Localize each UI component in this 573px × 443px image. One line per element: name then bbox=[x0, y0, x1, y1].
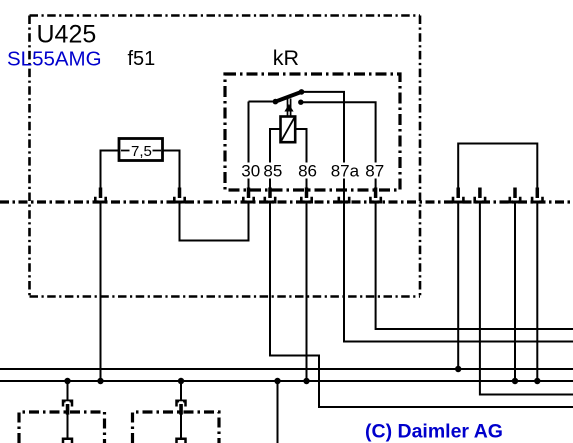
fuse f51 bbox=[119, 139, 163, 161]
connector at rail x537 bbox=[531, 188, 544, 204]
wire pin 86 coil lead down to ground bus bbox=[295, 129, 306, 381]
wire right connector 2 down and out right bbox=[480, 202, 573, 395]
connector at rail x100 bbox=[94, 188, 107, 204]
component box U425 bbox=[30, 16, 421, 297]
value label 7,5 bbox=[130, 142, 153, 160]
relay coil bbox=[281, 117, 296, 143]
wire 30 to arm pivot bbox=[249, 101, 276, 103]
junction dot x277 on ground bus bbox=[274, 378, 280, 384]
bottom terminal 1 bbox=[62, 438, 74, 443]
wire 87a from arm tip down and out right bbox=[302, 92, 573, 342]
connector at rail x179 bbox=[173, 188, 186, 204]
svg-text:30: 30 bbox=[241, 162, 260, 181]
connector at rail pin 85 bbox=[264, 188, 277, 204]
junction dot x537 on ground bus bbox=[534, 378, 540, 384]
component box bottom 2 bbox=[133, 412, 220, 443]
junction dot x458 on upper bus bbox=[455, 366, 461, 372]
svg-text:U425: U425 bbox=[37, 21, 97, 49]
junction dot x515 on ground bus bbox=[512, 378, 518, 384]
junction dot drop 1 on ground bus bbox=[64, 378, 70, 384]
wire 87 from contact down and out right bbox=[301, 102, 573, 329]
junction dot pin 86 on ground bus bbox=[303, 378, 309, 384]
pin label 87a bbox=[331, 162, 360, 181]
pin label 86 bbox=[297, 162, 319, 181]
svg-text:SL55AMG: SL55AMG bbox=[7, 48, 102, 71]
svg-text:85: 85 bbox=[263, 162, 282, 181]
connector at rail x458 bbox=[452, 188, 465, 204]
upper bus wire bbox=[0, 368, 573, 370]
bridge wire between right connectors bbox=[458, 144, 537, 191]
relay switch arm 30-87a bbox=[273, 89, 305, 104]
wire right connector 3 down to ground bus bbox=[514, 202, 516, 381]
svg-text:7,5: 7,5 bbox=[131, 143, 152, 160]
bottom terminal 2 bbox=[175, 438, 187, 443]
connector at rail pin 86 bbox=[300, 188, 313, 204]
contact dot 87 bbox=[298, 100, 303, 105]
junction dot fuse left on ground bus bbox=[97, 378, 103, 384]
connector at rail pin 30 bbox=[242, 188, 255, 204]
connector at rail pin 87a bbox=[338, 197, 351, 204]
svg-text:87a: 87a bbox=[331, 162, 360, 181]
svg-text:(C) Daimler AG: (C) Daimler AG bbox=[365, 421, 503, 443]
connector at rail pin 87 bbox=[369, 188, 382, 204]
wire right connector 1 down to upper bus bbox=[457, 202, 459, 369]
connector at rail x515 bbox=[509, 188, 522, 204]
wire drop to bottom component 1 bbox=[67, 381, 69, 438]
wire drop at x277 to bottom edge bbox=[277, 381, 279, 443]
armature actuation lines with arrow bbox=[284, 99, 293, 117]
wire fuse left lead to ground bus bbox=[101, 151, 120, 382]
pin label 87 bbox=[365, 162, 387, 181]
pin label 30 bbox=[239, 162, 261, 181]
main connector rail bbox=[0, 200, 573, 203]
component box bottom 1 bbox=[19, 412, 105, 443]
wire pin 30 vertical bbox=[248, 102, 250, 241]
wire pin 85 coil lead down, jog right, out right bbox=[270, 129, 573, 407]
wire fuse right lead down and over to pin 30 bbox=[163, 151, 249, 241]
svg-text:f51: f51 bbox=[128, 48, 156, 70]
wire drop to bottom component 2 bbox=[180, 381, 182, 438]
connector at drop 2 bbox=[175, 400, 187, 415]
svg-text:87: 87 bbox=[365, 162, 384, 181]
relay box kR bbox=[225, 74, 400, 190]
pin label 85 bbox=[262, 162, 284, 181]
svg-text:kR: kR bbox=[273, 46, 299, 70]
wire right connector 4 down to ground bus bbox=[536, 202, 538, 381]
junction dot drop 2 on ground bus bbox=[178, 378, 184, 384]
lower ground bus wire bbox=[0, 380, 573, 382]
connector at drop 1 bbox=[62, 400, 74, 415]
connector at rail x480 bbox=[473, 188, 486, 204]
svg-text:86: 86 bbox=[298, 162, 317, 181]
